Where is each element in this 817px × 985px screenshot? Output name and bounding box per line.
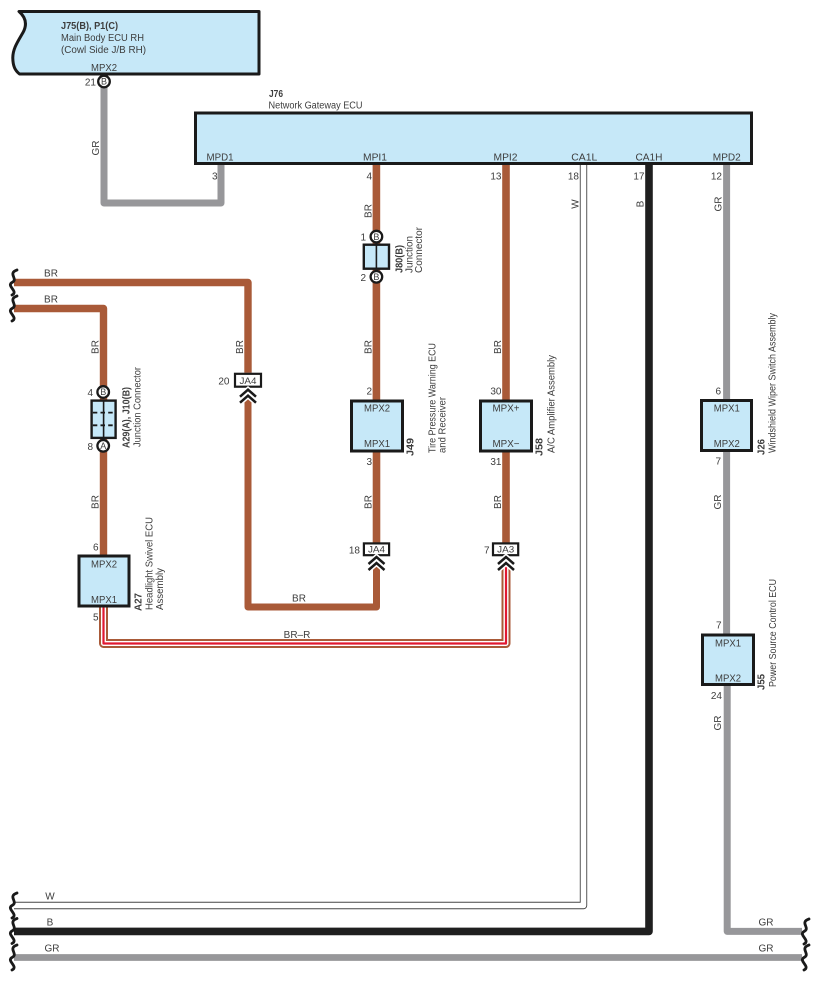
svg-text:Network Gateway ECU: Network Gateway ECU	[269, 101, 363, 112]
torn end squiggle B wire left	[10, 919, 17, 944]
pin 21 circle B of J75	[85, 76, 110, 89]
torn end squiggle BR wire 2 left	[10, 296, 17, 321]
svg-text:MPX2: MPX2	[715, 674, 741, 685]
svg-text:MPX2: MPX2	[91, 560, 117, 571]
svg-text:18: 18	[349, 546, 361, 557]
svg-text:BR: BR	[44, 295, 58, 306]
svg-text:Assembly: Assembly	[155, 568, 166, 610]
svg-text:BR: BR	[292, 594, 306, 605]
svg-text:GR: GR	[759, 918, 774, 929]
svg-text:A29(A), J10(B): A29(A), J10(B)	[122, 387, 133, 448]
svg-text:J26: J26	[757, 439, 768, 455]
ECU block J76 Network Gateway ECU	[196, 89, 752, 164]
svg-text:MPD2: MPD2	[713, 153, 741, 164]
svg-text:2: 2	[360, 273, 366, 284]
svg-text:BR: BR	[91, 340, 102, 354]
wire B from J76 CA1H pin 17 to left edge	[14, 164, 649, 931]
svg-text:1: 1	[360, 233, 366, 244]
svg-text:GR: GR	[713, 495, 724, 510]
svg-text:MPX1: MPX1	[91, 595, 117, 606]
svg-text:Headlight Swivel ECU: Headlight Swivel ECU	[145, 517, 156, 610]
svg-text:and Receiver: and Receiver	[438, 396, 449, 453]
chevron arrows below JA4 pin 20	[240, 390, 256, 403]
svg-text:4: 4	[87, 388, 93, 399]
svg-text:B: B	[47, 918, 54, 929]
svg-text:BR: BR	[91, 495, 102, 509]
svg-text:W: W	[571, 199, 582, 209]
svg-text:W: W	[45, 892, 55, 903]
svg-text:Power Source Control ECU: Power Source Control ECU	[768, 579, 779, 687]
svg-text:A27: A27	[134, 593, 145, 611]
svg-text:BR: BR	[364, 495, 375, 509]
wire BR from left edge through A29/J10 junction to A27 pin 6	[14, 309, 104, 557]
wire GR bottom full width	[14, 954, 802, 961]
ECU block J58 A/C Amplifier Assembly	[481, 355, 558, 468]
svg-text:BR: BR	[235, 340, 246, 354]
svg-text:4: 4	[366, 172, 372, 183]
svg-text:B: B	[100, 387, 106, 397]
svg-text:A: A	[100, 441, 106, 451]
svg-text:J76: J76	[269, 89, 283, 100]
svg-text:12: 12	[711, 172, 723, 183]
svg-text:7: 7	[484, 546, 490, 557]
svg-text:31: 31	[490, 457, 502, 468]
svg-text:Windshield Wiper Switch Assemb: Windshield Wiper Switch Assembly	[768, 313, 779, 453]
wire GR from J26 pin 7 to J55 pin 7	[723, 451, 730, 636]
connector JA4 pin 20	[218, 374, 261, 388]
svg-text:BR: BR	[44, 269, 58, 280]
svg-text:24: 24	[711, 691, 723, 702]
chevron arrows below JA3 pin 7	[498, 557, 514, 570]
svg-text:(Cowl Side J/B RH): (Cowl Side J/B RH)	[61, 45, 146, 56]
torn end squiggle GR bottom wire right	[802, 945, 809, 970]
svg-text:CA1L: CA1L	[571, 153, 597, 164]
svg-text:MPX2: MPX2	[364, 404, 390, 415]
svg-text:GR: GR	[91, 141, 102, 156]
connector JA3 pin 7	[484, 543, 518, 556]
svg-text:2: 2	[366, 387, 372, 398]
svg-text:20: 20	[218, 377, 230, 388]
svg-text:J58: J58	[535, 438, 546, 456]
svg-text:3: 3	[366, 457, 372, 468]
svg-text:GR: GR	[759, 944, 774, 955]
svg-text:MPX+: MPX+	[493, 404, 520, 415]
block J55 Power Source Control ECU	[703, 579, 780, 702]
svg-text:B: B	[101, 77, 107, 87]
connector block J75(B) P1(C) Main Body ECU RH	[13, 12, 259, 75]
svg-text:MPD1: MPD1	[207, 153, 234, 164]
svg-text:30: 30	[490, 387, 502, 398]
svg-text:MPX1: MPX1	[364, 439, 390, 450]
svg-text:MPI2: MPI2	[494, 153, 518, 164]
svg-text:7: 7	[715, 457, 721, 468]
wire BR from J58 pin 31 to JA3 pin 7	[502, 451, 510, 543]
wire W from J76 CA1L pin 18 to left edge	[14, 164, 584, 906]
chevron arrows below JA4 pin 18	[369, 557, 385, 570]
ECU block A27 Headlight Swivel ECU Assembly	[79, 517, 166, 624]
svg-text:BR: BR	[493, 340, 504, 354]
svg-text:3: 3	[212, 172, 218, 183]
svg-text:6: 6	[715, 387, 721, 398]
junction connector A29(A) J10(B)	[87, 366, 143, 452]
svg-text:B: B	[636, 200, 647, 207]
wire GR from J76 MPD2 pin 12 to J26 pin 6	[723, 164, 730, 401]
wire BR from J76 MPI2 pin 13 to J58 pin 30	[502, 164, 510, 401]
svg-text:J75(B), P1(C): J75(B), P1(C)	[61, 21, 118, 32]
wire BR-R from A27 pin 5 to JA3 pin 7	[104, 563, 507, 644]
svg-text:JA4: JA4	[240, 376, 257, 387]
svg-text:B: B	[373, 272, 379, 282]
svg-text:Main Body ECU RH: Main Body ECU RH	[61, 33, 144, 44]
wire BR from J49 pin 3 to JA4 pin 18	[373, 451, 381, 543]
ECU block J49 Tire Pressure Warning ECU and Receiver	[352, 343, 449, 468]
block J26 Windshield Wiper Switch Assembly	[702, 313, 779, 468]
torn end squiggle BR wire 1 left	[10, 270, 17, 295]
svg-text:GR: GR	[713, 716, 724, 731]
svg-text:BR: BR	[493, 495, 504, 509]
svg-text:MPX2: MPX2	[714, 439, 740, 450]
svg-text:13: 13	[490, 172, 502, 183]
svg-text:MPX2: MPX2	[91, 63, 117, 74]
svg-text:6: 6	[93, 543, 99, 554]
svg-text:J49: J49	[406, 438, 417, 456]
svg-text:17: 17	[633, 172, 645, 183]
torn end squiggle GR J55 wire right	[802, 919, 809, 944]
wire BR linking JA4 pin 20 to JA4 pin 18	[248, 398, 377, 608]
svg-text:MPI1: MPI1	[363, 153, 387, 164]
wire GR from J75 pin 21 to J76 MPD1 pin 3	[104, 87, 221, 203]
svg-text:BR–R: BR–R	[284, 630, 311, 641]
wire BR from J76 MPI1 pin 4 through J80 to J49 pin 2	[373, 164, 381, 401]
svg-text:21: 21	[85, 78, 97, 89]
svg-text:Junction Connector: Junction Connector	[133, 366, 144, 447]
svg-text:7: 7	[716, 621, 722, 632]
svg-text:BR: BR	[364, 340, 375, 354]
svg-text:B: B	[373, 232, 379, 242]
torn end squiggle W wire left	[10, 893, 17, 918]
svg-text:GR: GR	[714, 197, 725, 212]
svg-text:Connector: Connector	[414, 226, 425, 273]
svg-text:J55: J55	[757, 674, 768, 690]
svg-text:5: 5	[93, 613, 99, 624]
svg-text:BR: BR	[364, 204, 375, 218]
wire BR from left edge to JA4 pin 20	[14, 283, 248, 373]
svg-text:MPX1: MPX1	[715, 639, 741, 650]
junction connector J80(B)	[360, 226, 425, 283]
svg-text:MPX−: MPX−	[493, 439, 520, 450]
svg-text:MPX1: MPX1	[714, 404, 740, 415]
connector JA4 pin 18	[349, 543, 389, 556]
svg-text:8: 8	[87, 442, 93, 453]
wire GR from J55 pin 24 to right edge	[727, 684, 802, 931]
svg-text:GR: GR	[45, 944, 60, 955]
svg-text:A/C Amplifier Assembly: A/C Amplifier Assembly	[547, 355, 558, 453]
torn end squiggle GR wire left	[10, 945, 17, 970]
svg-text:CA1H: CA1H	[636, 153, 663, 164]
svg-text:18: 18	[568, 172, 580, 183]
